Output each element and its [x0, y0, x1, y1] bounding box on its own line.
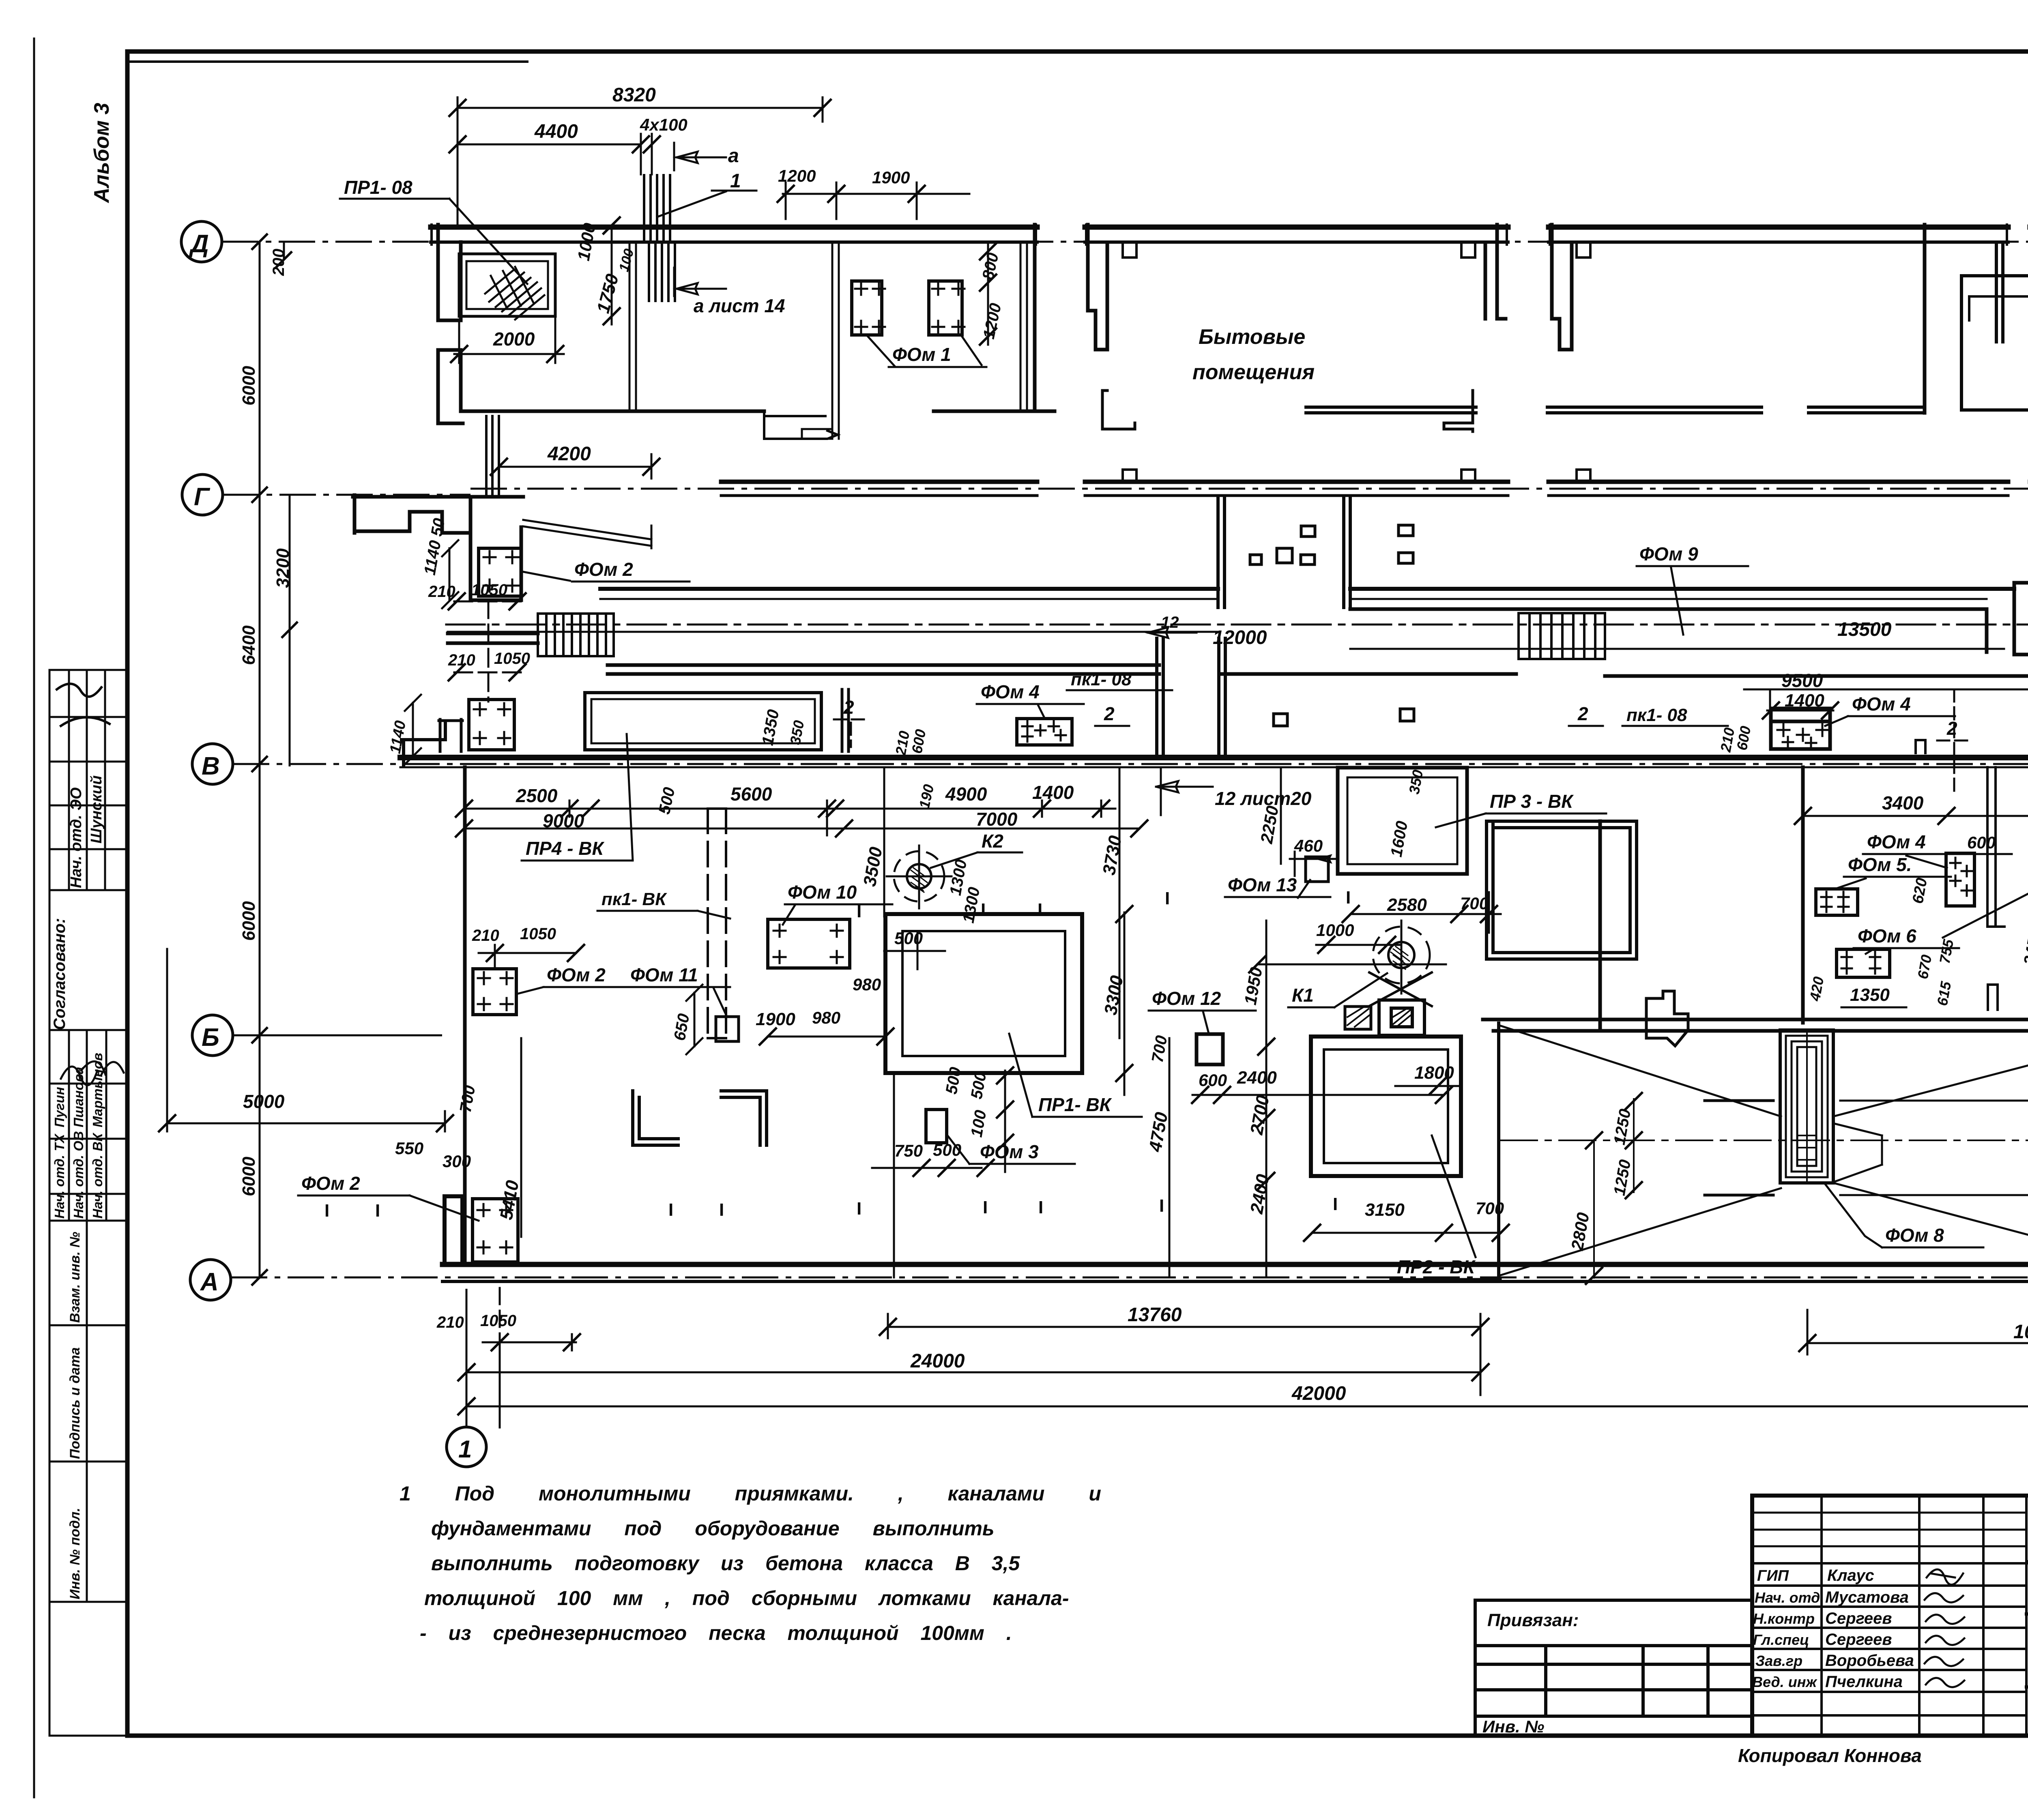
- right block room walls: [1487, 821, 1637, 959]
- svg-text:210: 210: [436, 1313, 464, 1331]
- corridor north wall: [600, 587, 2028, 591]
- svg-text:I: I: [1346, 888, 1351, 908]
- Г left protrusion with notch: [353, 495, 523, 533]
- svg-text:1: 1: [458, 1436, 472, 1463]
- Д wall end caps: [432, 225, 2028, 245]
- svg-text:I: I: [719, 1200, 724, 1220]
- svg-text:I: I: [1165, 889, 1170, 908]
- svg-text:Зав.гр: Зав.гр: [1755, 1653, 1802, 1669]
- title top small rows: [1752, 1513, 2026, 1546]
- svg-text:ФОм 2: ФОм 2: [574, 559, 633, 580]
- svg-text:2: 2: [1577, 703, 1588, 724]
- svg-text:500: 500: [655, 786, 679, 816]
- a section hatch below: [649, 243, 675, 301]
- axis Г: [182, 474, 223, 515]
- svg-text:300: 300: [443, 1152, 471, 1171]
- title outer: [1752, 1496, 2028, 1736]
- svg-text:2: 2: [1946, 718, 1957, 739]
- svg-text:4400: 4400: [534, 121, 578, 142]
- Г wall inner segments: [721, 494, 2028, 497]
- К1 manhole: [1388, 942, 1414, 968]
- svg-text:600: 600: [909, 728, 929, 755]
- svg-text:К1: К1: [1292, 985, 1314, 1006]
- svg-text:1250: 1250: [1611, 1158, 1635, 1197]
- a arrow top: [674, 143, 726, 170]
- block2 left lower stub: [1102, 391, 1135, 429]
- axis line Г: [223, 489, 2028, 495]
- 1750 dim: [611, 225, 613, 324]
- svg-text:Н.контр: Н.контр: [1753, 1610, 1815, 1627]
- svg-text:4750: 4750: [1145, 1110, 1172, 1153]
- trap axis: [1501, 1140, 2028, 1141]
- room right partition: [629, 242, 636, 411]
- right hall east wall: [1598, 821, 1602, 1030]
- block2 right wall: [1485, 225, 1506, 319]
- top dim 8320: [458, 97, 823, 225]
- Б wall pilaster right: [1988, 985, 1998, 1010]
- svg-text:1200: 1200: [778, 166, 816, 185]
- Взам.инв block: [49, 1221, 127, 1736]
- svg-text:3730: 3730: [1099, 834, 1126, 876]
- I-beam marks row 2240: [857, 888, 1351, 921]
- svg-text:700: 700: [1149, 1034, 1171, 1064]
- svg-text:Нач. отд. ОВ: Нач. отд. ОВ: [71, 1131, 86, 1219]
- svg-text:500: 500: [968, 1071, 990, 1100]
- Г wall outer segments: [721, 480, 2028, 484]
- block4 left wall: [1996, 245, 2003, 342]
- svg-text:750: 750: [894, 1141, 923, 1160]
- svg-text:Альбом 3: Альбом 3: [90, 103, 114, 204]
- svg-text:3400: 3400: [1882, 792, 1924, 813]
- svg-text:Мусатова: Мусатова: [1825, 1588, 1909, 1606]
- А-row left wall pier: [445, 1196, 462, 1264]
- В wall left corner: [402, 721, 445, 765]
- Б wall right segment: [1483, 1019, 2028, 1031]
- ФОм10 block: [768, 919, 850, 968]
- svg-text:Нач. отд. ВК: Нач. отд. ВК: [90, 1132, 105, 1219]
- svg-text:2800: 2800: [1567, 1211, 1593, 1252]
- svg-text:Пшанова: Пшанова: [71, 1067, 86, 1127]
- svg-text:4200: 4200: [547, 443, 591, 465]
- svg-text:I: I: [324, 1201, 329, 1221]
- svg-text:Г: Г: [194, 483, 211, 511]
- svg-text:755: 755: [1936, 938, 1957, 965]
- svg-text:2580: 2580: [1387, 895, 1427, 915]
- partition x2060: [802, 242, 839, 439]
- Д wall inner line segments: [431, 240, 2028, 244]
- top dim 1200 1900: [783, 182, 969, 219]
- svg-text:650: 650: [671, 1012, 693, 1042]
- ФОм4 left block: [1017, 719, 1072, 745]
- pilasters on Д wall inner: [1123, 244, 1590, 258]
- block1 left wall lower stub: [438, 350, 463, 423]
- svg-text:Шунский: Шунский: [88, 775, 105, 843]
- svg-text:670: 670: [1914, 953, 1935, 980]
- X diagonals: [1499, 1025, 2028, 1276]
- svg-text:1 Под монолитными приямкам: 1 Под монолитными приямками. , каналами …: [400, 1482, 1101, 1505]
- hatched pads above ПР2: [1345, 1007, 1371, 1029]
- svg-text:600: 600: [1967, 833, 1996, 852]
- svg-text:350: 350: [787, 719, 808, 746]
- block3 left wall: [1552, 225, 1572, 350]
- svg-text:Подпись и дата: Подпись и дата: [67, 1347, 83, 1459]
- axis 1 vline: [466, 1289, 468, 1427]
- svg-text:ФОм 13: ФОм 13: [1228, 874, 1297, 895]
- svg-text:А: А: [200, 1268, 219, 1296]
- svg-text:Д: Д: [189, 230, 209, 258]
- leader 1: [657, 191, 756, 217]
- svg-text:980: 980: [853, 975, 881, 994]
- svg-text:200: 200: [270, 249, 288, 276]
- svg-text:ПР4 - ВК: ПР4 - ВК: [526, 838, 604, 859]
- ФОм5 block: [1816, 889, 1858, 915]
- ФОм11 square: [716, 1017, 739, 1041]
- svg-text:12000: 12000: [1213, 627, 1267, 648]
- svg-text:210: 210: [472, 927, 499, 944]
- svg-text:Клаус: Клаус: [1827, 1567, 1874, 1584]
- svg-text:ФОм 5.: ФОм 5.: [1848, 854, 1912, 875]
- 12 лист20 mark: [1156, 781, 1213, 792]
- Привязан table: [1475, 1600, 1752, 1736]
- left staircase: [538, 614, 614, 656]
- block4 room walls: [1961, 276, 2028, 410]
- ФОм1 block b: [929, 281, 962, 335]
- svg-text:В: В: [202, 752, 220, 780]
- В dim chain 1: [464, 775, 1115, 835]
- svg-text:3500: 3500: [860, 845, 886, 888]
- block1 right wall: [1033, 225, 1037, 411]
- svg-text:1: 1: [730, 170, 741, 192]
- П pocket left of square: [439, 719, 462, 751]
- svg-text:a: a: [728, 145, 739, 167]
- Д wall outer line segments: [431, 225, 2028, 230]
- svg-text:ФОм 6: ФОм 6: [1858, 925, 1916, 946]
- svg-text:а лист 14: а лист 14: [694, 295, 785, 316]
- svg-text:ФОм 10: ФОм 10: [788, 882, 857, 903]
- svg-text:ФОм 8: ФОм 8: [1885, 1225, 1944, 1246]
- svg-text:ФОм 4: ФОм 4: [981, 681, 1040, 702]
- svg-text:Взам. инв. №: Взам. инв. №: [67, 1232, 83, 1323]
- block4 interior line: [1969, 296, 2028, 320]
- svg-text:5000: 5000: [243, 1091, 285, 1112]
- step piece on Б wall: [1646, 991, 1688, 1046]
- title columns left part: [1822, 1496, 2026, 1736]
- svg-text:1900: 1900: [756, 1009, 795, 1029]
- sidebar upper table: [49, 670, 127, 890]
- svg-text:ПР1- 08: ПР1- 08: [344, 177, 412, 198]
- svg-text:4900: 4900: [945, 783, 987, 805]
- axis А: [190, 1260, 231, 1300]
- svg-text:10300: 10300: [2013, 1321, 2028, 1343]
- axis line А: [231, 1277, 2028, 1279]
- axis 1 circle: [447, 1427, 486, 1467]
- svg-text:Инв. № подл.: Инв. № подл.: [67, 1508, 83, 1599]
- svg-text:ФОм 12: ФОм 12: [1152, 988, 1221, 1009]
- Б mid L walls: [633, 1091, 678, 1145]
- svg-text:1350: 1350: [759, 708, 783, 747]
- right staircase: [1519, 613, 1605, 659]
- svg-text:1400: 1400: [1785, 691, 1824, 710]
- svg-text:Инв. №: Инв. №: [1482, 1717, 1544, 1736]
- svg-text:9500: 9500: [1781, 670, 1823, 691]
- пк1-ВК channel dashed: [708, 809, 726, 1038]
- svg-text:ФОм 1: ФОм 1: [892, 344, 951, 365]
- ФОм12 square: [1197, 1034, 1223, 1065]
- pads near В wall: [1274, 709, 1414, 726]
- Б-row ФОм2 square: [473, 969, 516, 1015]
- svg-text:2400: 2400: [1246, 1172, 1273, 1215]
- А wall band: [443, 1262, 2028, 1267]
- svg-text:Нач. отд: Нач. отд: [1755, 1589, 1820, 1606]
- svg-text:Привязан:: Привязан:: [1487, 1610, 1579, 1630]
- svg-text:350: 350: [1406, 768, 1426, 795]
- channel continuation right: [1987, 767, 2004, 927]
- ПР2-ВК pit: [1311, 1037, 1461, 1176]
- right corridor bay: [2014, 583, 2028, 689]
- svg-text:выполнить подготовку из бет: выполнить подготовку из бетона класса В …: [431, 1552, 1020, 1575]
- svg-text:5600: 5600: [730, 783, 772, 805]
- axis Б: [192, 1015, 233, 1056]
- corridor thin line: [448, 632, 2004, 649]
- svg-text:6000: 6000: [239, 901, 259, 941]
- ПР3-ВК pit: [1338, 768, 1467, 874]
- В wall pilasters: [1916, 740, 2028, 753]
- svg-text:I: I: [981, 900, 986, 920]
- svg-text:Воробьева: Воробьева: [1825, 1652, 1914, 1670]
- svg-text:620: 620: [1910, 877, 1931, 905]
- svg-text:100: 100: [616, 247, 637, 273]
- axis line В: [233, 763, 2028, 765]
- ФОм6 block: [1837, 949, 1890, 977]
- axis Д: [181, 221, 222, 262]
- sand trap left wall: [1497, 1023, 1500, 1278]
- svg-text:Сергеев: Сергеев: [1825, 1631, 1892, 1648]
- axis line Б: [233, 1034, 442, 1037]
- central tank: [1780, 1030, 1833, 1183]
- svg-text:Гл.спец: Гл.спец: [1753, 1631, 1809, 1648]
- ФОм2 А square: [473, 1199, 518, 1262]
- svg-text:Вед. инж: Вед. инж: [1752, 1674, 1817, 1690]
- svg-text:ФОм 2: ФОм 2: [547, 964, 606, 985]
- В right ФОм4: [1771, 708, 1830, 749]
- svg-text:Бытовые: Бытовые: [1199, 325, 1305, 349]
- svg-text:I: I: [857, 901, 861, 921]
- corridor second wall: [1350, 609, 1987, 652]
- В wall main band: [400, 755, 2028, 760]
- top border inner segment: [127, 60, 527, 63]
- svg-text:- из среднезернистого песка: - из среднезернистого песка толщиной 100…: [420, 1622, 1012, 1644]
- svg-text:I: I: [983, 1198, 988, 1217]
- title right dividers: [2026, 1614, 2028, 1736]
- svg-text:9000: 9000: [543, 810, 584, 831]
- К1 X mark: [1369, 972, 1432, 1006]
- svg-text:2400: 2400: [1237, 1068, 1277, 1088]
- block1 bottom wall: [463, 410, 1055, 413]
- ФОм3 block: [926, 1110, 947, 1143]
- svg-text:I: I: [1038, 1198, 1043, 1217]
- svg-text:460: 460: [1294, 836, 1323, 855]
- svg-text:Пчелкина: Пчелкина: [1825, 1673, 1903, 1691]
- block1 bottom step wall: [764, 411, 838, 439]
- svg-text:1400: 1400: [1032, 782, 1074, 803]
- ФОм4 mid block: [1946, 853, 1974, 906]
- top dim 4400: [458, 134, 652, 174]
- corridor axis line: [446, 624, 2028, 626]
- partition right of pit: [842, 689, 849, 751]
- 1200 800 dims right of ФОм1: [987, 243, 989, 345]
- ФОм1 block a: [852, 281, 882, 335]
- ПР1-ВК pit: [885, 914, 1082, 1073]
- a section hatch above: [644, 175, 670, 241]
- title row lines: [1752, 1561, 2028, 1715]
- svg-text:ГИП: ГИП: [1757, 1567, 1789, 1584]
- svg-text:Согласовано:: Согласовано:: [51, 918, 69, 1030]
- 2000 dim: [454, 316, 564, 363]
- Г left block wall: [470, 497, 521, 600]
- svg-text:ПР 3 - ВК: ПР 3 - ВК: [1490, 791, 1574, 812]
- svg-text:6400: 6400: [239, 625, 259, 665]
- svg-text:7000: 7000: [976, 809, 1018, 830]
- svg-text:ПР1- ВК: ПР1- ВК: [1038, 1094, 1112, 1115]
- paper edge left: [33, 39, 35, 1797]
- svg-text:615: 615: [1934, 980, 1955, 1007]
- svg-text:6000: 6000: [239, 366, 259, 406]
- svg-text:8320: 8320: [612, 84, 656, 106]
- svg-text:13500: 13500: [1837, 619, 1892, 640]
- svg-text:2000: 2000: [493, 328, 535, 350]
- svg-text:2450: 2450: [2020, 928, 2028, 967]
- svg-text:3200: 3200: [273, 548, 293, 588]
- svg-text:Нач. отд. ТХ: Нач. отд. ТХ: [52, 1133, 67, 1219]
- block1 interior partition x2520: [1020, 242, 1027, 411]
- svg-text:I: I: [668, 1200, 673, 1220]
- axis В: [192, 744, 233, 784]
- room ПР1-08 outline: [459, 254, 555, 316]
- svg-text:помещения: помещения: [1192, 361, 1315, 384]
- svg-text:1900: 1900: [872, 168, 910, 187]
- Г pilasters: [1123, 470, 2028, 482]
- block2 left wall: [1088, 225, 1107, 350]
- svg-text:4x100: 4x100: [640, 115, 687, 134]
- svg-text:ФОм 4: ФОм 4: [1867, 831, 1926, 852]
- svg-text:500: 500: [943, 1066, 965, 1095]
- svg-text:пк1- 08: пк1- 08: [1626, 705, 1687, 725]
- ramp diagonals: [523, 520, 651, 548]
- svg-text:Пугин: Пугин: [52, 1087, 67, 1127]
- В wall thin line: [400, 766, 2028, 768]
- svg-text:700: 700: [457, 1084, 479, 1114]
- svg-text:600: 600: [1199, 1071, 1227, 1090]
- signature squiggle: [57, 684, 110, 726]
- ПР1-08 hatch: [485, 267, 544, 320]
- block1 left wall: [438, 225, 461, 320]
- svg-text:1350: 1350: [1850, 985, 1890, 1005]
- ФОм13 square: [1306, 857, 1328, 882]
- svg-text:2250: 2250: [1257, 804, 1282, 845]
- 210 1050 extension (А row): [499, 1288, 501, 1334]
- В dim chain 2: [464, 828, 1139, 830]
- svg-text:ФОм 4: ФОм 4: [1852, 693, 1911, 715]
- signatures: [1925, 1569, 1964, 1687]
- svg-text:100: 100: [968, 1109, 990, 1138]
- block3 bottom walls: [1547, 407, 1923, 413]
- К2 manhole: [907, 864, 931, 889]
- svg-text:500: 500: [894, 929, 923, 948]
- left hall west wall: [463, 767, 467, 1264]
- svg-text:13760: 13760: [1128, 1304, 1182, 1326]
- corridor south wall: [448, 633, 2028, 676]
- svg-text:ФОм 11: ФОм 11: [630, 964, 698, 985]
- block2 right lower stub: [1444, 391, 1473, 431]
- left dim ticks: [251, 234, 298, 1286]
- svg-text:500: 500: [933, 1140, 961, 1159]
- svg-text:I: I: [857, 1199, 861, 1219]
- svg-text:1050: 1050: [471, 581, 507, 599]
- svg-text:2: 2: [1104, 703, 1115, 724]
- right hall west wall: [1801, 767, 1805, 1023]
- svg-text:пк1- 08: пк1- 08: [1071, 670, 1132, 689]
- left dim chain vline: [260, 242, 290, 1277]
- svg-text:Б: Б: [202, 1024, 219, 1052]
- cross corridor upper walls: [1218, 497, 1350, 607]
- svg-text:210: 210: [428, 583, 455, 601]
- svg-text:ФОм 3: ФОм 3: [980, 1141, 1039, 1162]
- svg-text:фундаментами под оборудовани: фундаментами под оборудование выполнить: [431, 1517, 995, 1540]
- svg-text:I: I: [1333, 1194, 1338, 1214]
- upper stub above Г: [486, 416, 499, 495]
- lower tambour walls: [1157, 638, 1225, 758]
- svg-text:420: 420: [1806, 975, 1827, 1002]
- svg-text:3150: 3150: [1365, 1200, 1405, 1220]
- vent squares: [1250, 525, 1413, 564]
- svg-text:1950: 1950: [1241, 966, 1266, 1006]
- svg-text:1140 50: 1140 50: [421, 517, 449, 576]
- svg-text:550: 550: [395, 1139, 423, 1158]
- svg-text:I: I: [375, 1201, 380, 1221]
- В-row ФОм2 square left: [469, 700, 514, 750]
- funnel neck: [1833, 1123, 1882, 1182]
- ПР4-ВК pit: [585, 693, 821, 750]
- svg-text:3300: 3300: [1101, 974, 1127, 1016]
- svg-text:980: 980: [812, 1008, 840, 1027]
- svg-text:I: I: [1159, 1196, 1164, 1216]
- ФОм2 Г square: [479, 548, 521, 596]
- svg-text:600: 600: [1734, 725, 1754, 751]
- svg-text:Мартынов: Мартынов: [90, 1053, 105, 1127]
- I marks row 2975: [324, 1194, 1338, 1221]
- svg-text:К2: К2: [982, 831, 1003, 852]
- axis line Д: [222, 241, 2028, 243]
- svg-text:190: 190: [916, 783, 937, 810]
- svg-text:Нач. отд. ЭО: Нач. отд. ЭО: [68, 788, 85, 888]
- trap rails: [1705, 1101, 1773, 1195]
- svg-text:2500: 2500: [516, 785, 558, 806]
- svg-text:1050: 1050: [480, 1312, 516, 1330]
- block3 right wall: [1923, 225, 1927, 413]
- svg-text:1140: 1140: [387, 719, 410, 755]
- 4200 dim: [499, 454, 651, 479]
- svg-text:Копировал Коннова: Копировал Коннова: [1738, 1745, 1922, 1766]
- svg-text:пк1- ВК: пк1- ВК: [602, 889, 667, 909]
- svg-text:Сергеев: Сергеев: [1825, 1610, 1892, 1627]
- svg-text:ФОм 9: ФОм 9: [1639, 543, 1698, 564]
- block2 bottom wall right part: [1306, 407, 1476, 413]
- svg-text:ФОм 2: ФОм 2: [301, 1173, 360, 1194]
- svg-text:1050: 1050: [520, 925, 556, 943]
- svg-text:24000: 24000: [910, 1350, 965, 1372]
- svg-text:42000: 42000: [1291, 1383, 1346, 1404]
- svg-text:210: 210: [448, 651, 475, 669]
